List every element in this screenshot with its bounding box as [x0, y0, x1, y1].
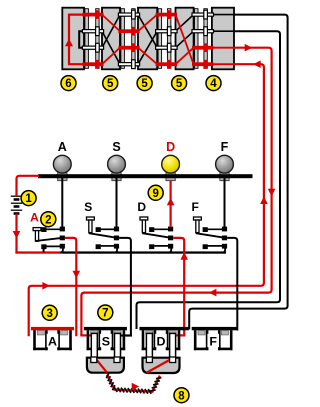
label circle 7 [98, 305, 113, 320]
label circle 2 [41, 212, 56, 227]
plug prongs in socket D [146, 333, 152, 362]
lamp S [112, 173, 121, 181]
lamp D [166, 173, 175, 181]
wire entry row1 to socket F frame (black) [189, 15, 287, 330]
arrow right on inbound wire near socket A [42, 282, 50, 290]
arrow down on key A descender [73, 271, 81, 279]
label circle 3 [42, 305, 57, 320]
label circle 5 [103, 76, 118, 91]
arrow up on right-side inbound wire [260, 196, 268, 204]
label circle 6 [61, 76, 76, 91]
arrow up on key D return wire [180, 252, 188, 260]
contact strip and rail, gap 2 [121, 9, 125, 69]
reflector internal wire (active, red) [69, 15, 85, 65]
plug S prong bottoms [91, 357, 97, 363]
svg-text:9: 9 [152, 188, 158, 200]
current direction arrow up inside reflector [65, 39, 73, 47]
lamp A wire to key A [61, 178, 63, 227]
plug D prong bottoms [146, 357, 152, 363]
battery (1) [11, 196, 22, 213]
key switch S [87, 217, 95, 220]
svg-text:A: A [30, 210, 39, 224]
rotor contacts, gap 3 [156, 13, 178, 17]
arrow up on lamp D wire [167, 198, 175, 206]
svg-text:7: 7 [102, 308, 108, 320]
lamp A [58, 173, 67, 181]
key switch A [33, 228, 41, 231]
entry wheel straight wires [212, 14, 234, 16]
rotor contacts, gap 2 [118, 13, 139, 16]
svg-text:8: 8 [178, 390, 185, 402]
svg-text:5: 5 [107, 78, 114, 90]
key S common wire down to socket S [119, 238, 131, 337]
svg-text:D: D [166, 140, 175, 154]
rotor 3 cross-wiring [176, 15, 194, 32]
svg-text:D: D [137, 200, 146, 214]
patch cable between plugs S and D (hatched) [107, 375, 160, 392]
plug body in socket D [143, 358, 180, 373]
svg-text:D: D [157, 334, 166, 348]
key F common wire down to socket F [227, 238, 237, 331]
lamp panel bar [38, 174, 253, 178]
label circle 1 [21, 191, 36, 206]
contact strip and rail, gap 3 [158, 9, 162, 69]
lamp S wire to key S [116, 178, 118, 227]
contact strip and rail, gap 4 [195, 9, 199, 69]
plug D internal wire (red) [147, 359, 172, 373]
entry wheel (4) body [212, 8, 234, 70]
label circle 5 [137, 76, 152, 91]
lamp F [220, 173, 229, 181]
svg-text:A: A [48, 334, 57, 348]
reflector (6) body [62, 8, 84, 70]
key S wire stub to socket S right contact [120, 334, 132, 336]
svg-text:F: F [221, 140, 229, 154]
wire entry row2 to socket D frame (black) [137, 31, 281, 329]
svg-text:F: F [209, 334, 217, 348]
plug prongs in socket S [91, 333, 97, 362]
svg-text:5: 5 [176, 78, 183, 90]
label circle 9 [148, 185, 163, 200]
svg-text:1: 1 [25, 193, 32, 205]
rotor 5c body [176, 8, 194, 70]
svg-text:A: A [58, 140, 67, 154]
rotor 5b body [138, 8, 157, 70]
label circle 4 [206, 76, 221, 91]
battery bus under keys (black part) [62, 251, 226, 253]
svg-text:S: S [112, 140, 120, 154]
rotor 1 cross-wiring [102, 31, 120, 64]
rotor 5a body [102, 8, 120, 70]
svg-text:3: 3 [46, 308, 52, 320]
key switch D [140, 217, 148, 220]
arrow left on lower return wire [209, 289, 217, 297]
arrow down on battery wire [13, 231, 21, 239]
arrow on patch cable [132, 383, 140, 391]
arrow down on right-side return wire [268, 189, 276, 197]
plugboard socket A [31, 327, 74, 330]
svg-text:S: S [102, 334, 110, 348]
battery negative wire down to key bus (red) [15, 214, 17, 254]
svg-text:6: 6 [65, 78, 71, 90]
key D common wire down to socket D (red return) [173, 238, 184, 336]
svg-text:F: F [192, 200, 199, 214]
plugboard socket F [192, 327, 238, 330]
lamp D wire to key D (red, lit) [170, 181, 172, 227]
svg-text:2: 2 [45, 214, 51, 226]
red stub into socket S left contact [80, 334, 92, 336]
key switch F [194, 217, 202, 220]
rotor 2 cross-wiring [138, 15, 157, 48]
wire entry row3 to socket S (red, return path) [81, 48, 271, 336]
plugboard socket S [84, 327, 127, 330]
arrow left on inbound wire entering entry wheel [253, 60, 261, 68]
battery positive wire to lamp bar (red) [17, 176, 40, 196]
contact strip and rail, gap 1 [85, 9, 89, 69]
svg-text:S: S [84, 200, 92, 214]
svg-text:5: 5 [141, 78, 148, 90]
plug S internal wire (red) [96, 359, 107, 373]
reflector internal wire (inactive) [79, 31, 84, 48]
label circle 5 [172, 76, 187, 91]
label circle 8 [174, 388, 189, 403]
wire socket A to entry row4 (red, inbound path) [29, 64, 264, 336]
battery bus under keys (red live part) [15, 251, 62, 253]
red stub to socket D right contact [174, 334, 186, 336]
rotor contacts, gap 1 [82, 13, 103, 17]
key A common wire down to socket A (red) [65, 238, 76, 336]
svg-text:4: 4 [210, 78, 217, 90]
rotor contacts, gap 4 [192, 13, 214, 16]
arrow right on return wire at entry exit [245, 44, 253, 52]
plug body in socket S [87, 358, 124, 373]
plugboard socket D [140, 327, 189, 330]
lamp F wire to key F [224, 178, 226, 227]
